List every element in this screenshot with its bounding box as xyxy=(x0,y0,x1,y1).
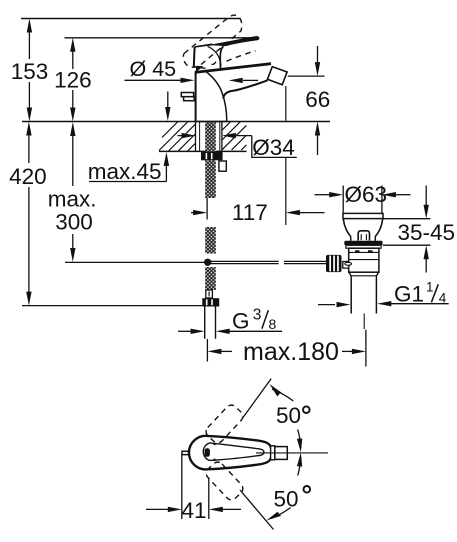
dim 41 xyxy=(146,455,241,519)
temperature limiter knob on body left xyxy=(181,93,194,101)
svg-text:G1: G1 xyxy=(394,281,424,306)
tailpipe centerline xyxy=(363,314,365,330)
svg-text:41: 41 xyxy=(181,498,206,523)
dim O34 leader xyxy=(178,133,297,158)
svg-text:max.180: max.180 xyxy=(243,338,339,366)
svg-text:420: 420 xyxy=(9,164,47,189)
dashed handle rotated down xyxy=(204,460,246,503)
svg-text:1: 1 xyxy=(426,279,434,294)
dim 35-45 xyxy=(383,186,431,273)
deck hatching right block xyxy=(222,122,246,151)
svg-text:G: G xyxy=(232,309,250,334)
lever (solid, thick wedge) xyxy=(195,36,260,48)
hose end nut (dark) xyxy=(202,298,219,306)
lower 50deg arc xyxy=(298,457,301,476)
faucet aerator square xyxy=(267,67,287,85)
svg-text:Ø63: Ø63 xyxy=(345,182,388,207)
joint ring xyxy=(271,446,275,460)
faucet spout bottom curve into body right edge xyxy=(223,80,268,98)
waste flange (dark band) xyxy=(344,241,382,246)
hose end fitting xyxy=(206,290,213,298)
braided shank through deck xyxy=(205,122,216,152)
waste collar xyxy=(346,245,381,248)
waste cap rim xyxy=(343,213,383,218)
handle block corner wedge xyxy=(196,66,204,72)
ref line lever tip level xyxy=(65,37,259,39)
waste dome taper right xyxy=(375,219,382,236)
BOTTOMVIEW top view of mixer xyxy=(182,379,328,530)
braided hose resumed run xyxy=(205,227,216,254)
handle block bottom edge xyxy=(194,67,206,68)
waste dome waist xyxy=(350,236,352,241)
vertical spout-tip projection line xyxy=(285,86,287,225)
svg-text:Ø 45: Ø 45 xyxy=(130,57,177,81)
svg-text:max.: max. xyxy=(48,186,97,211)
lower 50deg ray xyxy=(240,490,274,530)
dim 66 xyxy=(288,46,325,155)
svg-text:300: 300 xyxy=(55,210,93,235)
svg-text:153: 153 xyxy=(11,59,49,84)
svg-text:35-45: 35-45 xyxy=(398,220,456,245)
spout tube xyxy=(275,447,288,460)
pull rod to waste xyxy=(211,260,279,262)
dashed raised handle outline xyxy=(183,15,255,67)
braided hose upper run xyxy=(205,160,216,198)
dim 153 xyxy=(27,19,32,122)
body taper to pipe xyxy=(349,272,379,279)
upper 50deg ray xyxy=(243,379,271,418)
upper 50deg arc xyxy=(298,430,301,449)
faucet spout top edge xyxy=(195,64,271,73)
knurled coupling knob xyxy=(326,255,342,272)
svg-text:8: 8 xyxy=(269,316,277,332)
faucet body left edge xyxy=(195,72,197,121)
rod guide block below nut xyxy=(219,161,226,171)
svg-text:max.45: max.45 xyxy=(88,159,162,184)
bayonet slots xyxy=(355,250,360,252)
faucet body cascade curve to base xyxy=(206,71,227,121)
dim max300 xyxy=(70,122,75,262)
detail dots xyxy=(213,443,215,445)
svg-text:66: 66 xyxy=(305,87,330,112)
mounting nut (dark) xyxy=(201,152,223,160)
svg-text:50: 50 xyxy=(274,487,299,512)
svg-text:4: 4 xyxy=(439,290,447,305)
dim max180 xyxy=(207,330,366,367)
FAUCET front view xyxy=(181,15,287,121)
deck top surface line xyxy=(22,121,330,123)
dim 117 xyxy=(191,198,325,220)
handle neck right edge xyxy=(220,46,223,69)
inner lever outline xyxy=(203,443,264,461)
DECK cross-section xyxy=(22,122,330,152)
HOSE / shank assembly xyxy=(201,122,326,339)
spray outlet stub xyxy=(182,451,191,454)
ref line top (dashed-handle tip level) xyxy=(21,18,240,20)
ref line pull-rod left xyxy=(65,261,204,263)
svg-text:3: 3 xyxy=(253,306,262,323)
svg-text:117: 117 xyxy=(232,200,268,225)
dim 126 xyxy=(70,38,75,122)
handle block top edge xyxy=(195,44,213,47)
dim O63 xyxy=(315,186,411,214)
svg-text:Ø34: Ø34 xyxy=(252,135,295,160)
pivot pill xyxy=(205,448,210,457)
waste dome taper left xyxy=(343,219,350,236)
plug stem block xyxy=(358,231,369,241)
POPUP waste assembly xyxy=(326,213,383,329)
braided hose lower run xyxy=(205,267,216,290)
svg-text:50: 50 xyxy=(276,403,301,428)
waste tailpipe xyxy=(350,279,352,314)
handle block inner arc xyxy=(208,46,221,66)
G3/8 thread stub xyxy=(204,307,206,339)
dim O45 leader arrows xyxy=(125,78,259,84)
body outer silhouette xyxy=(189,436,272,470)
deck hole left edge xyxy=(195,122,197,152)
tee node xyxy=(204,259,211,266)
deck hatching left block xyxy=(159,122,195,152)
dim G1 1/4 leader xyxy=(318,301,449,307)
dashed handle rotated up xyxy=(204,403,246,446)
svg-text:126: 126 xyxy=(54,68,92,93)
dim max45 leader xyxy=(89,92,171,182)
handle block left edge xyxy=(193,47,196,67)
waste valve body xyxy=(349,248,379,272)
faucet base bottom xyxy=(196,121,227,123)
ref line hose end level xyxy=(22,305,203,307)
dim G3/8 xyxy=(178,329,282,334)
dim 420 xyxy=(26,122,31,306)
deck hole right edge xyxy=(221,122,223,152)
rod socket tab xyxy=(343,262,349,269)
deck bottom line xyxy=(159,150,247,152)
shank sleeve lines in hole xyxy=(199,122,201,152)
centerline xyxy=(256,452,328,454)
